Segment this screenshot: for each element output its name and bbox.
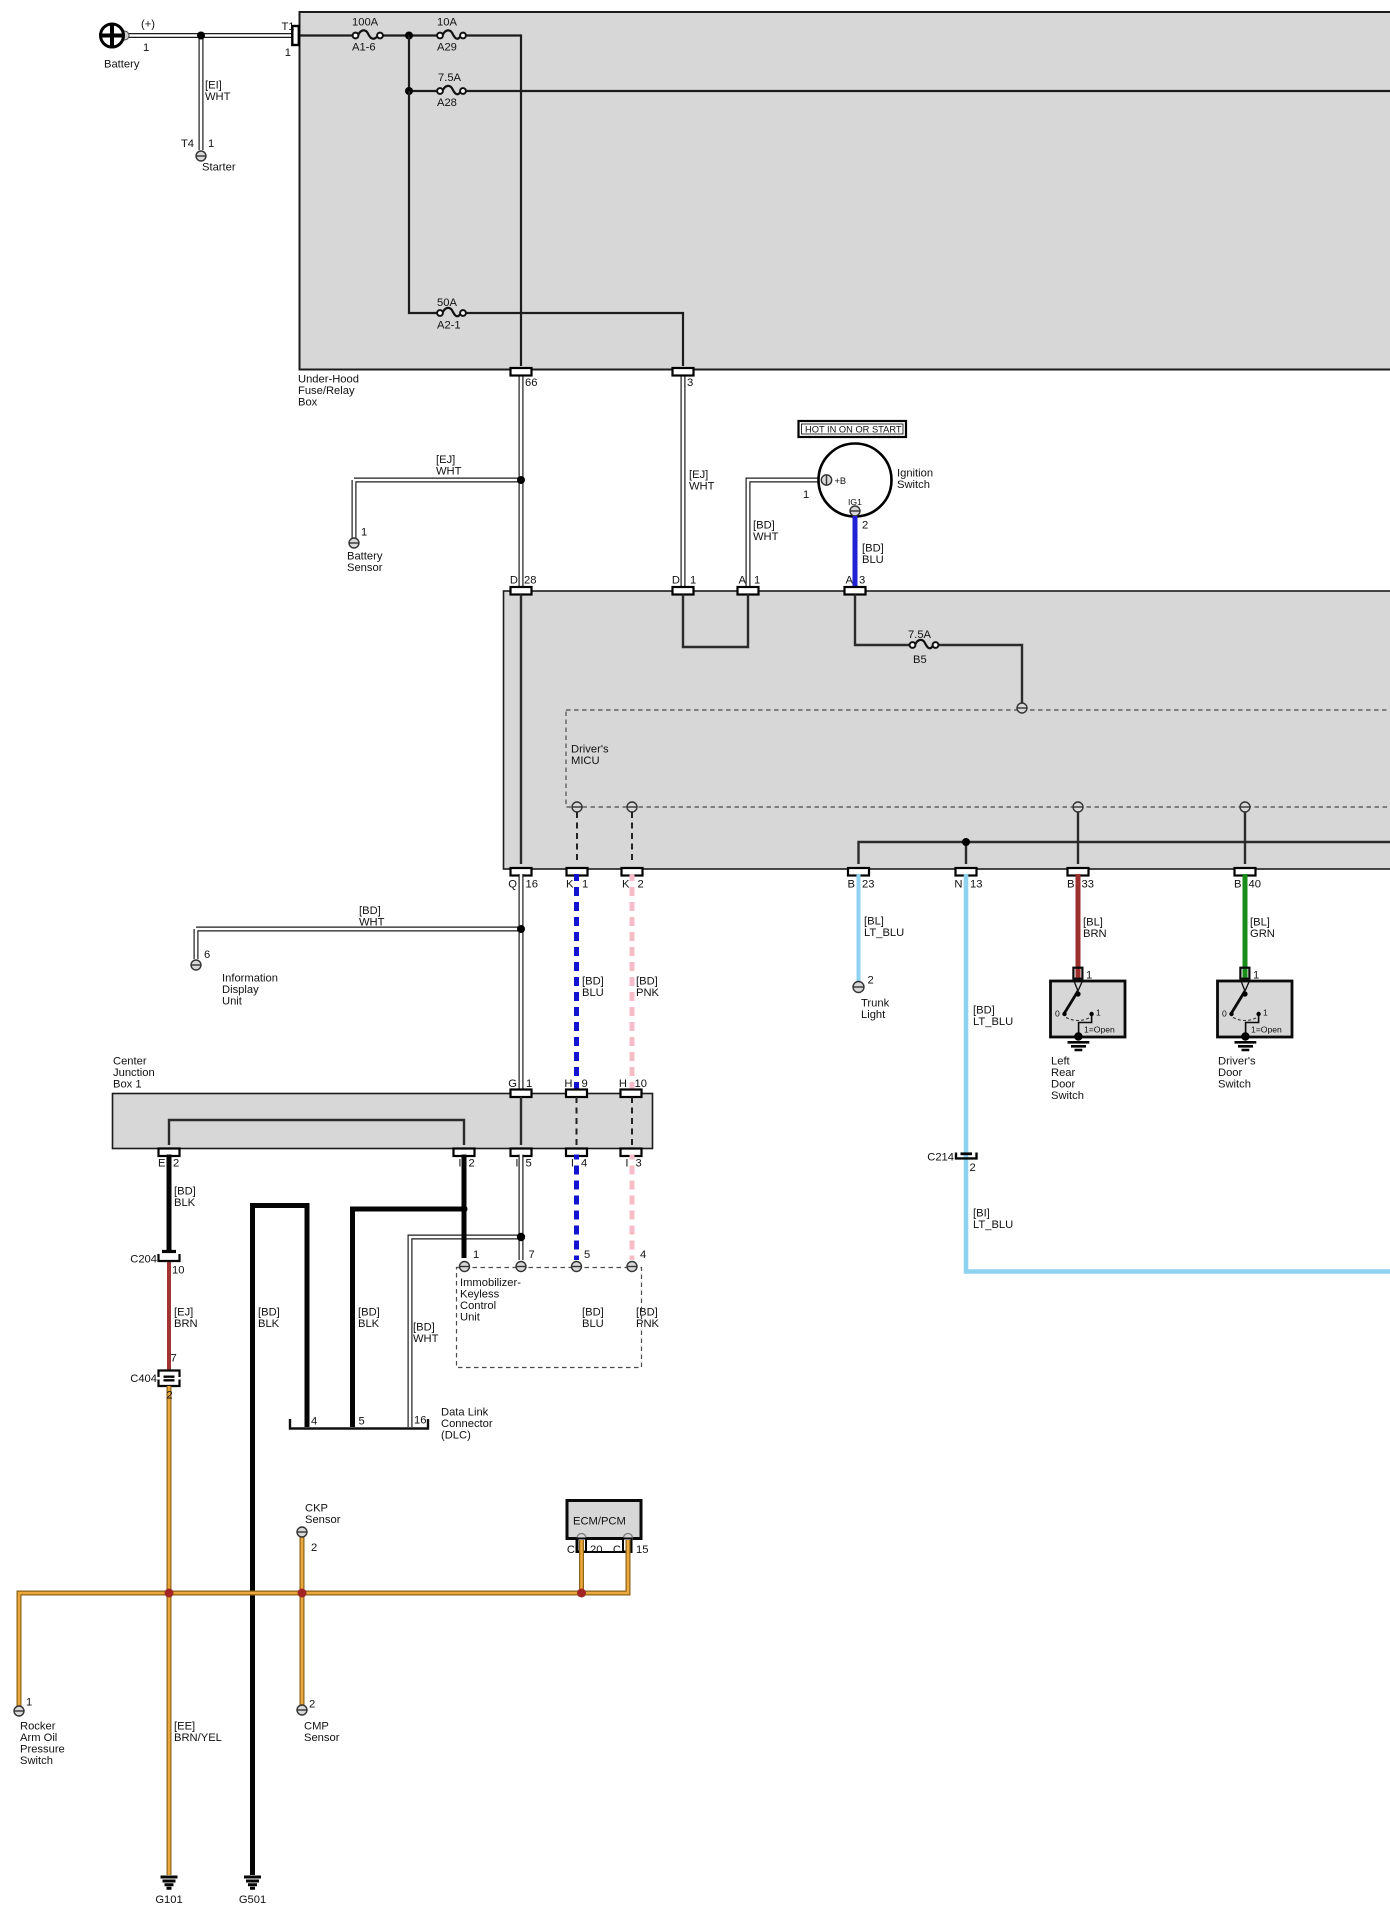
svg-text:4: 4 <box>640 1249 646 1261</box>
svg-text:[EJ]: [EJ] <box>174 1307 193 1319</box>
svg-text:K: K <box>622 879 630 891</box>
svg-text:BLK: BLK <box>258 1318 280 1330</box>
svg-text:Switch: Switch <box>897 479 930 491</box>
connector D28 <box>510 575 537 595</box>
svg-text:Control: Control <box>460 1300 496 1312</box>
DLC bracket <box>290 1407 493 1442</box>
svg-text:I: I <box>625 1158 628 1170</box>
svg-text:CMP: CMP <box>304 1721 329 1733</box>
battery <box>101 19 156 71</box>
svg-text:9: 9 <box>582 1078 588 1090</box>
svg-text:Sensor: Sensor <box>304 1732 340 1744</box>
svg-text:1: 1 <box>143 42 149 54</box>
immobilizer pin 5 terminal <box>572 1249 591 1272</box>
connector B23 <box>848 868 875 891</box>
svg-text:BRN: BRN <box>174 1318 198 1330</box>
node junction at battery wire <box>197 32 205 40</box>
wire C204 to C404 (brown-red) <box>167 1262 171 1370</box>
connector A1 <box>738 575 761 595</box>
svg-text:D: D <box>672 575 680 587</box>
svg-text:PNK: PNK <box>636 987 660 999</box>
svg-text:CKP: CKP <box>305 1502 328 1514</box>
wire junction down to 50A A2-1 fuse then to pin 3 <box>409 91 683 366</box>
Under-Hood Fuse/Relay Box body <box>300 12 1390 370</box>
wire I2 segment crossing over I5 branch <box>462 1230 467 1245</box>
fuse 50A A2-1 <box>437 297 466 332</box>
svg-text:3: 3 <box>859 575 865 587</box>
svg-text:B: B <box>1067 879 1074 891</box>
svg-text:2: 2 <box>167 1390 173 1402</box>
terminal on dashed MICU bottom above B33 <box>1073 802 1083 812</box>
connector B40 <box>1234 868 1261 891</box>
svg-text:7: 7 <box>171 1353 177 1365</box>
svg-text:BLU: BLU <box>582 1318 604 1330</box>
label [BD] BLU (K1 wire) <box>582 976 604 1000</box>
connector H10 <box>619 1078 647 1097</box>
svg-text:B: B <box>848 879 855 891</box>
wire D28 to Q16 inside box <box>520 595 522 865</box>
wire E2 to I2 inside CJB <box>169 1120 464 1145</box>
svg-text:[BD]: [BD] <box>636 1307 658 1319</box>
wire E2 to C204 (thick black) <box>167 1155 172 1253</box>
svg-text:Center: Center <box>113 1055 147 1067</box>
svg-text:B5: B5 <box>913 654 927 666</box>
svg-text:C: C <box>567 1544 575 1556</box>
wire junction down to 7.5A A28 fuse and right to edge <box>409 36 1390 92</box>
svg-text:[BD]: [BD] <box>582 976 604 988</box>
svg-text:[BD]: [BD] <box>636 976 658 988</box>
svg-text:100A: 100A <box>352 17 379 29</box>
information display unit terminal <box>191 949 278 1007</box>
battery sensor terminal <box>347 527 383 575</box>
svg-text:A1-6: A1-6 <box>352 42 376 54</box>
svg-text:1: 1 <box>1253 970 1259 982</box>
wire B23 to trunk light (light blue) <box>857 874 861 981</box>
svg-text:C: C <box>613 1544 621 1556</box>
wire K1 to H9 (blue dashed) <box>574 874 579 1090</box>
wire ignition +B to A1 (white double) <box>748 480 822 587</box>
svg-text:[BD]: [BD] <box>413 1322 435 1334</box>
label [BD] BLK (pi wire) <box>258 1307 280 1331</box>
left rear door switch <box>1051 968 1126 1041</box>
svg-text:7.5A: 7.5A <box>438 72 462 84</box>
svg-text:H: H <box>619 1078 627 1090</box>
svg-text:Box 1: Box 1 <box>113 1078 142 1090</box>
wire I5 to immobilizer pin7 with branch to DLC pin16 (white double) <box>410 1155 521 1428</box>
wire Q16 to G1 (white double) with branch to Information Display Unit <box>196 874 521 1090</box>
svg-text:G: G <box>508 1078 517 1090</box>
svg-text:Light: Light <box>861 1009 886 1021</box>
immobilizer pin 7 terminal <box>516 1249 535 1272</box>
rocker arm oil pressure switch terminal <box>14 1697 65 1768</box>
svg-text:1: 1 <box>208 138 214 150</box>
wire K2 to H10 (pink dashed) <box>630 874 635 1090</box>
fuse 100A A1-6 <box>352 17 383 54</box>
Driver's MICU dashed box <box>566 710 1390 807</box>
fuse 7.5A A28 <box>437 72 466 109</box>
svg-text:Battery: Battery <box>347 551 383 563</box>
svg-text:BLU: BLU <box>582 987 604 999</box>
svg-text:[BL]: [BL] <box>1083 917 1103 929</box>
node junction on I5 wire <box>517 1233 525 1241</box>
svg-text:WHT: WHT <box>753 531 779 543</box>
driver's door switch <box>1218 968 1293 1041</box>
svg-text:LT_BLU: LT_BLU <box>864 927 904 939</box>
svg-text:23: 23 <box>862 879 874 891</box>
svg-text:[EE]: [EE] <box>174 1721 195 1733</box>
wire G1 to I5 inside CJB <box>520 1097 522 1145</box>
wire C20 to bus (orange) <box>579 1540 584 1593</box>
svg-text:3: 3 <box>687 377 693 389</box>
svg-text:B: B <box>1234 879 1241 891</box>
connector I2 <box>454 1149 475 1170</box>
wire horizontal bus to B23/N13 <box>859 842 1390 864</box>
svg-text:WHT: WHT <box>436 466 462 478</box>
svg-text:2: 2 <box>638 879 644 891</box>
ground G101 <box>155 1877 182 1906</box>
HOT IN ON OR START box <box>799 421 907 437</box>
svg-text:WHT: WHT <box>205 91 231 103</box>
svg-text:A2-1: A2-1 <box>437 320 461 332</box>
svg-text:[BL]: [BL] <box>864 916 884 928</box>
wire I2 to immobilizer pin1 with branch to DLC pin5 (thick black) <box>353 1155 465 1428</box>
svg-text:Arm Oil: Arm Oil <box>20 1732 57 1744</box>
svg-text:15: 15 <box>636 1544 648 1556</box>
svg-text:G101: G101 <box>155 1894 182 1906</box>
svg-text:0: 0 <box>1222 1009 1227 1019</box>
label [BD] WHT (DLC16 wire) <box>413 1322 439 1346</box>
svg-text:A28: A28 <box>437 97 457 109</box>
ECM/PCM box <box>567 1501 641 1539</box>
svg-text:2: 2 <box>868 975 874 987</box>
label [BD] BLU (I4 wire) <box>582 1307 604 1331</box>
svg-text:BRN: BRN <box>1083 928 1107 940</box>
label Under-Hood Fuse/Relay Box <box>298 374 359 409</box>
svg-text:G501: G501 <box>239 1894 266 1906</box>
svg-text:1: 1 <box>1096 1008 1101 1018</box>
svg-text:Sensor: Sensor <box>305 1514 341 1526</box>
svg-text:33: 33 <box>1082 879 1094 891</box>
terminal circle on dashed MICU top <box>1017 703 1027 713</box>
svg-text:[EJ]: [EJ] <box>689 469 708 481</box>
svg-text:Information: Information <box>222 972 278 984</box>
svg-text:16: 16 <box>414 1415 426 1427</box>
wire dashed K2 drop <box>631 812 633 864</box>
wire IG1 to A3 (blue) <box>853 516 858 587</box>
svg-text:K: K <box>566 879 574 891</box>
svg-text:Junction: Junction <box>113 1067 155 1079</box>
connector D1 <box>672 575 696 595</box>
wire B33 to left rear door switch (dark red) <box>1076 874 1081 981</box>
node junction orange at C20 line <box>577 1589 586 1598</box>
svg-text:1: 1 <box>361 527 367 539</box>
svg-text:5: 5 <box>584 1249 590 1261</box>
immobilizer pin 4 terminal <box>627 1249 646 1272</box>
svg-text:1: 1 <box>473 1249 479 1261</box>
svg-text:3: 3 <box>636 1158 642 1170</box>
svg-text:Driver's: Driver's <box>571 744 609 756</box>
label [BD] WHT (info display branch) <box>359 905 385 929</box>
svg-text:1: 1 <box>285 47 291 59</box>
svg-text:1=Open: 1=Open <box>1084 1025 1115 1035</box>
svg-text:16: 16 <box>526 879 538 891</box>
wire H10 to I3 dashed inside CJB <box>631 1097 633 1145</box>
svg-text:1: 1 <box>803 489 809 501</box>
wire H9 to I4 dashed inside CJB <box>576 1097 578 1145</box>
svg-text:C204: C204 <box>130 1254 157 1266</box>
node junction orange at CKP line <box>298 1589 307 1598</box>
svg-text:20: 20 <box>590 1544 602 1556</box>
svg-text:2: 2 <box>862 520 868 532</box>
svg-text:A: A <box>846 575 854 587</box>
wire pin3 to D1 (white double) <box>681 373 686 587</box>
svg-text:40: 40 <box>1249 879 1261 891</box>
svg-text:T4: T4 <box>181 138 194 150</box>
svg-text:[BD]: [BD] <box>358 1307 380 1319</box>
svg-text:[BD]: [BD] <box>258 1307 280 1319</box>
svg-text:2: 2 <box>309 1699 315 1711</box>
label [BI] LT_BLU <box>973 1208 1013 1232</box>
label [BL] LT_BLU (B23 wire) <box>864 916 904 940</box>
svg-text:C404: C404 <box>130 1373 157 1385</box>
wire I4 to immobilizer pin5 (blue dashed) <box>574 1155 579 1261</box>
svg-text:[BD]: [BD] <box>174 1186 196 1198</box>
svg-text:10: 10 <box>635 1078 647 1090</box>
svg-text:H: H <box>564 1078 572 1090</box>
ground below driver's door switch <box>1235 1042 1257 1050</box>
svg-text:4: 4 <box>311 1416 317 1428</box>
label Left Rear Door Switch <box>1051 1056 1084 1103</box>
wire pin66 to D28 (white double) with branch to Battery Sensor <box>354 373 521 587</box>
fuse 7.5A B5 <box>908 629 938 666</box>
svg-text:[EJ]: [EJ] <box>436 454 455 466</box>
svg-text:[BD]: [BD] <box>862 543 884 555</box>
svg-text:1: 1 <box>26 1697 32 1709</box>
connector C214 <box>927 1152 976 1175</box>
wire junction to Starter (white double line) <box>199 36 204 151</box>
node junction on I2 wire <box>461 1206 468 1213</box>
svg-text:IG1: IG1 <box>848 497 862 507</box>
label [EJ] WHT (battery sensor branch) <box>436 454 462 478</box>
fuse 10A A29 <box>437 17 466 54</box>
connector K2 <box>622 868 644 891</box>
label [EE] BRN/YEL <box>174 1721 222 1745</box>
svg-text:Switch: Switch <box>1218 1079 1251 1091</box>
svg-text:Trunk: Trunk <box>861 997 890 1009</box>
svg-text:Door: Door <box>1218 1067 1243 1079</box>
connector H9 <box>564 1078 587 1097</box>
terminal on dashed MICU bottom above B40 <box>1240 802 1250 812</box>
wire C15 to orange bus to rocker arm switch <box>19 1540 628 1706</box>
connector G1 <box>508 1078 532 1097</box>
svg-text:4: 4 <box>581 1158 587 1170</box>
svg-text:66: 66 <box>525 377 537 389</box>
svg-text:10A: 10A <box>437 17 457 29</box>
svg-text:LT_BLU: LT_BLU <box>973 1016 1013 1028</box>
svg-text:Connector: Connector <box>441 1418 493 1430</box>
terminal on dashed MICU bottom above K1 <box>572 802 582 812</box>
starter terminal <box>181 138 236 174</box>
svg-text:Switch: Switch <box>20 1755 53 1767</box>
svg-text:Sensor: Sensor <box>347 562 383 574</box>
label [BD] PNK (K2 wire) <box>636 976 660 1000</box>
svg-text:BLK: BLK <box>358 1318 380 1330</box>
node junction orange at C404 line <box>165 1589 174 1598</box>
label [BD] PNK (I3 wire) <box>636 1307 660 1331</box>
connector C404 <box>130 1353 179 1387</box>
svg-text:WHT: WHT <box>413 1333 439 1345</box>
ground below left rear door switch <box>1068 1042 1090 1050</box>
svg-text:I: I <box>515 1158 518 1170</box>
MICU outer box body <box>504 591 1390 869</box>
svg-text:Rear: Rear <box>1051 1067 1076 1079</box>
svg-text:7.5A: 7.5A <box>908 629 932 641</box>
svg-text:I: I <box>458 1158 461 1170</box>
svg-text:7: 7 <box>529 1249 535 1261</box>
svg-text:1: 1 <box>754 575 760 587</box>
svg-text:28: 28 <box>524 575 536 587</box>
svg-text:[EI]: [EI] <box>205 80 222 92</box>
svg-text:+B: +B <box>835 476 847 486</box>
svg-text:ECM/PCM: ECM/PCM <box>573 1516 626 1528</box>
Center Junction Box 1 body <box>113 1055 653 1148</box>
connector I5 <box>511 1149 532 1170</box>
svg-text:[BD]: [BD] <box>582 1307 604 1319</box>
label [BD] BLK (E2 wire) <box>174 1186 196 1210</box>
svg-text:50A: 50A <box>437 297 457 309</box>
wire N13 to C214 to bottom-right (light blue) <box>966 874 1390 1272</box>
connector E2 <box>158 1149 179 1170</box>
svg-text:Keyless: Keyless <box>460 1289 500 1301</box>
connector pin 66 <box>511 368 538 389</box>
svg-text:[BD]: [BD] <box>973 1005 995 1017</box>
svg-text:HOT IN ON OR START: HOT IN ON OR START <box>805 424 902 434</box>
connector T1 <box>281 21 298 59</box>
connector Q16 <box>508 868 538 891</box>
svg-text:Door: Door <box>1051 1079 1076 1091</box>
label [BL] BRN <box>1083 917 1107 941</box>
node junction after 100A fuse <box>405 32 413 40</box>
svg-text:D: D <box>510 575 518 587</box>
svg-text:(+): (+) <box>141 19 155 31</box>
wire battery to T1 (white double line) <box>122 33 292 38</box>
svg-text:Ignition: Ignition <box>897 467 933 479</box>
svg-text:Pressure: Pressure <box>20 1744 65 1756</box>
trunk light terminal <box>853 975 890 1021</box>
svg-text:1: 1 <box>1086 970 1092 982</box>
ECM connector bracket <box>567 1539 649 1557</box>
wire DLC pi-shape (thick black) G501 leg and pin4 leg <box>253 1206 308 1876</box>
immobilizer dashed box <box>457 1268 642 1368</box>
label [BD] WHT (A1 wire) <box>753 520 779 544</box>
svg-text:A29: A29 <box>437 42 457 54</box>
node junction at N13 <box>962 838 970 846</box>
svg-text:Immobilizer-: Immobilizer- <box>460 1277 521 1289</box>
svg-text:2: 2 <box>469 1158 475 1170</box>
wire I3 to immobilizer pin4 (pink dashed) <box>630 1155 635 1261</box>
svg-text:Fuse/Relay: Fuse/Relay <box>298 385 355 397</box>
svg-text:I: I <box>571 1158 574 1170</box>
svg-text:WHT: WHT <box>689 481 715 493</box>
svg-text:LT_BLU: LT_BLU <box>973 1219 1013 1231</box>
svg-text:0: 0 <box>1055 1009 1060 1019</box>
wire T1 to 100A fuse to junction to 10A fuse to pin 66 <box>299 36 521 367</box>
svg-text:[BI]: [BI] <box>973 1208 990 1220</box>
connector I4 <box>566 1149 587 1170</box>
svg-text:1: 1 <box>1263 1008 1268 1018</box>
connector I3 <box>621 1149 642 1170</box>
wire CKP to CMP vertical (orange) <box>300 1537 305 1705</box>
svg-text:1: 1 <box>526 1078 532 1090</box>
svg-text:MICU: MICU <box>571 755 600 767</box>
svg-text:Driver's: Driver's <box>1218 1056 1256 1068</box>
node junction on D28 wire <box>517 476 525 484</box>
connector pin 3 <box>673 368 694 389</box>
svg-text:10: 10 <box>172 1265 184 1277</box>
svg-text:BRN/YEL: BRN/YEL <box>174 1732 222 1744</box>
svg-text:PNK: PNK <box>636 1318 660 1330</box>
label [EJ] BRN <box>174 1307 198 1331</box>
svg-text:Display: Display <box>222 984 259 996</box>
svg-text:5: 5 <box>359 1416 365 1428</box>
svg-text:Q: Q <box>508 879 517 891</box>
svg-text:BLK: BLK <box>174 1197 196 1209</box>
svg-text:1: 1 <box>690 575 696 587</box>
connector N13 <box>954 868 982 891</box>
svg-text:BLU: BLU <box>862 554 884 566</box>
label [BD] BLU <box>862 543 884 567</box>
svg-text:Battery: Battery <box>104 59 140 71</box>
svg-text:N: N <box>954 879 962 891</box>
svg-text:C214: C214 <box>927 1152 954 1164</box>
terminal on dashed MICU bottom above K2 <box>627 802 637 812</box>
connector C204 <box>130 1252 184 1277</box>
wire A3 to B5 fuse to MICU dashed top <box>855 595 1022 704</box>
svg-text:GRN: GRN <box>1250 928 1275 940</box>
svg-text:13: 13 <box>970 879 982 891</box>
wire C404 to G101 vertical (orange) <box>167 1386 172 1875</box>
node junction on Q16 wire <box>517 925 525 933</box>
svg-text:Data Link: Data Link <box>441 1407 489 1419</box>
svg-text:5: 5 <box>526 1158 532 1170</box>
label [BL] GRN <box>1250 917 1275 941</box>
svg-text:(DLC): (DLC) <box>441 1430 471 1442</box>
wire D1 to A1 inside MICU box <box>683 595 748 648</box>
svg-text:2: 2 <box>173 1158 179 1170</box>
svg-text:2: 2 <box>970 1162 976 1174</box>
CMP sensor terminal <box>297 1699 340 1745</box>
svg-text:1=Open: 1=Open <box>1251 1025 1282 1035</box>
svg-text:[BD]: [BD] <box>753 520 775 532</box>
immobilizer pin 1 terminal <box>460 1249 480 1272</box>
svg-text:2: 2 <box>311 1542 317 1554</box>
ground G501 <box>239 1877 266 1906</box>
connector B33 <box>1067 868 1094 891</box>
svg-text:T1: T1 <box>281 21 294 33</box>
label Driver's Door Switch <box>1218 1056 1256 1091</box>
svg-text:Switch: Switch <box>1051 1090 1084 1102</box>
op ignition switch circle <box>803 444 933 532</box>
svg-text:A: A <box>739 575 747 587</box>
connector K1 <box>566 868 588 891</box>
label [BD] LT_BLU (N13 wire) <box>973 1005 1013 1029</box>
svg-text:Left: Left <box>1051 1056 1071 1068</box>
svg-text:Under-Hood: Under-Hood <box>298 374 359 386</box>
label [EI] WHT <box>205 80 231 104</box>
wire B40 drop <box>1244 812 1246 864</box>
svg-text:E: E <box>158 1158 165 1170</box>
svg-text:1: 1 <box>582 879 588 891</box>
